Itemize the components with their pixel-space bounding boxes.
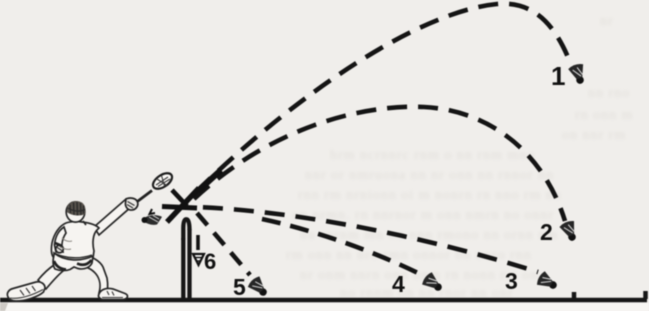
shoe marks xyxy=(10,286,43,298)
hand on racket xyxy=(125,198,137,210)
head xyxy=(66,202,85,222)
front leg xyxy=(78,255,108,294)
faint bleed-through text xyxy=(600,14,614,30)
shuttle beside racket xyxy=(142,209,163,225)
shuttlecock 2 xyxy=(559,219,581,243)
front shoe xyxy=(98,288,127,299)
first thick dash of upward shots xyxy=(198,170,221,191)
wrist band xyxy=(55,243,62,246)
back shoe xyxy=(7,282,45,301)
trajectory 3 (drive long) xyxy=(196,207,538,272)
shuttlecock 1 xyxy=(568,62,589,86)
shirt hem xyxy=(54,253,92,258)
impact X mark falling stroke xyxy=(172,190,187,206)
racket xyxy=(134,170,175,204)
trajectory 5 (net drop) xyxy=(197,213,250,275)
back leg xyxy=(38,265,63,289)
right arm xyxy=(94,199,131,235)
shirt folds xyxy=(60,238,72,249)
shorts hem dark xyxy=(54,260,92,270)
svg-text:6: 6 xyxy=(204,249,216,274)
svg-text:2: 2 xyxy=(540,219,553,245)
player xyxy=(7,199,131,301)
hair xyxy=(67,201,85,215)
svg-text:5: 5 xyxy=(233,274,246,300)
shorts xyxy=(53,253,93,271)
ground tick mid xyxy=(572,292,577,299)
torso xyxy=(51,222,99,262)
shuttlecock 4 xyxy=(421,271,446,296)
trajectory 2 (mid lob) xyxy=(194,107,565,221)
impact X mark horizontal stroke xyxy=(162,207,197,209)
svg-text:1: 1 xyxy=(551,61,565,91)
shadow wedge bottom-left corner xyxy=(0,303,8,311)
below-ground strip xyxy=(0,303,649,311)
shuttlecock 3 xyxy=(535,270,560,293)
svg-text:3: 3 xyxy=(505,268,518,294)
trajectory 4 (drive short) xyxy=(262,219,424,276)
neck xyxy=(83,221,86,225)
ground tick right end xyxy=(643,291,648,299)
net post right upright xyxy=(187,229,191,299)
net post left upright xyxy=(181,238,185,299)
left arm xyxy=(55,227,67,252)
net post top arch xyxy=(183,219,189,240)
impact X mark rising stroke xyxy=(167,188,199,222)
shuttlecock 5 xyxy=(246,275,271,300)
drop arrow 6 head xyxy=(193,254,204,265)
trajectory 1 (high clear) xyxy=(196,4,570,192)
fist left xyxy=(56,245,64,253)
drop arrow 6 shaft xyxy=(196,235,200,250)
ground line xyxy=(0,298,647,303)
svg-text:4: 4 xyxy=(392,271,405,297)
